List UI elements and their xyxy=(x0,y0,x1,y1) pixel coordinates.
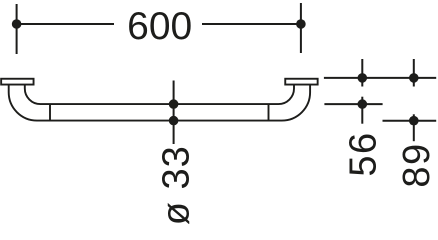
dimension 600: dimension line left segment xyxy=(17,23,114,25)
dimension 89: lower reference line xyxy=(383,120,437,122)
svg-text:ø 33: ø 33 xyxy=(155,145,197,224)
svg-text:56: 56 xyxy=(342,131,384,176)
wall reference: dot for 89 xyxy=(409,73,419,83)
grab bar: tube outer contour (bottom) with end bends xyxy=(9,85,310,121)
svg-text:89: 89 xyxy=(396,142,438,187)
wall reference: extension stub for 56 xyxy=(361,59,363,87)
dimension Ø33: vertical dimension line xyxy=(173,81,175,145)
dimension 89: dot xyxy=(409,116,419,126)
wall reference: dot for 56 xyxy=(358,73,368,83)
svg-text:600: 600 xyxy=(127,5,192,48)
wall reference: extension stub for 89 xyxy=(413,59,415,87)
grab bar: right weld joint line xyxy=(268,104,270,121)
dimension 56: dot xyxy=(358,99,368,109)
dimension Ø33: upper dot on tube top xyxy=(169,99,179,109)
grab bar: left wall flange xyxy=(1,79,33,85)
dimension 600: right extension line xyxy=(300,3,302,53)
dimension Ø33: lower dot on tube bottom xyxy=(169,116,179,126)
dimension 600: right terminator dot xyxy=(296,19,306,29)
dimension 56: vertical line xyxy=(361,97,363,124)
grab bar: tube inner contour (top) with end bends xyxy=(25,85,294,104)
dimension 56: lower reference line xyxy=(324,103,382,105)
grab bar: right wall flange xyxy=(285,79,317,85)
wall reference line (right detail) xyxy=(324,77,436,79)
dimension 600: left terminator dot xyxy=(12,19,22,29)
dimension 600: dimension line right segment xyxy=(202,23,301,25)
grab bar: left weld joint line xyxy=(49,104,51,121)
dimension 89: vertical line xyxy=(413,114,415,141)
dimension 600: left extension line xyxy=(16,4,18,54)
